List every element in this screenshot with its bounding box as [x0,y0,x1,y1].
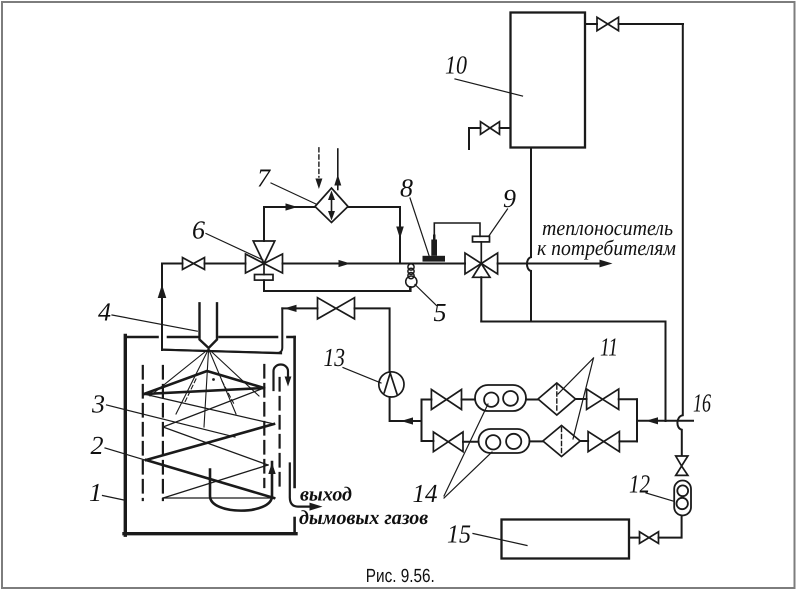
svg-text:выход: выход [300,484,352,506]
arrow gas exit [310,503,323,511]
pump 13 [379,372,404,397]
vessel right wall upper [293,337,296,487]
leader 5 [415,285,437,306]
gas exit elbow [290,464,310,507]
arrow down to main line [396,227,404,239]
tank 15 [502,520,630,559]
branch top pipe [422,398,638,401]
valve on vessel-pump pipe [318,298,355,319]
arrow riser up [158,285,167,299]
arrow out of 7 up [334,175,341,186]
svg-text:5: 5 [434,298,447,327]
leader 6 [206,234,263,261]
arrow siphon up [268,463,275,475]
valve bottom branch left [433,432,463,452]
vessel 1 left wall [124,336,127,536]
leader 8 [410,198,429,256]
svg-text:13: 13 [324,343,346,372]
valve bottom branch right [588,432,619,452]
filter 11 top diamond [538,383,576,415]
dashed axis top diamond [556,385,558,413]
pressure regulator 5 [406,264,417,291]
svg-text:10: 10 [445,51,467,80]
pipe 12 to tank 15 [629,516,682,538]
packing zigzag thick [144,371,274,498]
svg-text:12: 12 [629,470,650,499]
pipe vessel to pump with valve [282,308,389,372]
pipe tank makeup inlet [469,128,511,149]
svg-text:14: 14 [413,479,438,508]
leader 15 [473,534,527,546]
arrow pump outlet [401,417,413,424]
branch bottom pipe [422,440,638,443]
valve top branch right [587,389,619,410]
pipe into vessel channel [163,308,282,353]
branch right junction [636,399,638,441]
valve top branch left [431,390,461,410]
svg-text:6: 6 [192,216,205,245]
arrow branch inlet [646,417,658,424]
leader 12 [646,493,673,501]
spray rays [150,349,259,427]
tank 10 [511,13,586,148]
dashed axis bottom diamond [561,428,563,456]
pipe out of 7 [337,149,339,190]
arrow on main supply mid [339,260,351,267]
svg-text:11: 11 [600,333,618,362]
pipe pump outlet [390,397,422,421]
svg-text:8: 8 [400,174,413,203]
svg-text:2: 2 [91,431,104,460]
packing zigzag thin [144,388,275,498]
pipe 7 to main line [348,207,400,264]
pipe valve6 to loop of 7 [264,207,315,241]
dashed guides right pair [264,365,279,490]
leader 10 [455,79,523,96]
svg-text:4: 4 [98,298,111,327]
pipe branch inlet from right [637,420,693,422]
leader 9 [489,209,508,237]
svg-text:1: 1 [89,478,102,507]
svg-text:16: 16 [693,389,711,418]
pipe tank top to right column [585,23,683,25]
pipe valve9 bottom drop [480,277,482,321]
temperature sensor 8 [423,235,446,262]
flow meter 12 [674,481,691,516]
leader 14 b [444,452,492,498]
leader 11 a [573,358,594,439]
leader 4 [112,315,197,331]
svg-text:Рис. 9.56.: Рис. 9.56. [366,566,435,587]
svg-text:3: 3 [91,390,105,419]
control line 8 to valve 9 [434,223,480,239]
leader 3 [107,405,236,437]
right column pipe with jump over inlet line (node 16) [677,24,682,456]
leader 2 [105,448,150,462]
vessel top wall [125,336,294,339]
pump unit 14 top [475,385,526,411]
arrow loop to 7 [286,203,298,210]
heat exchanger 7 diamond [315,188,348,223]
siphon U-tube [210,462,272,511]
valve on makeup inlet [481,122,500,135]
collector plate slanted [163,350,281,354]
riser pipe from vessel [161,264,163,351]
svg-text:15: 15 [447,520,471,549]
pipe control line y321 [481,321,665,323]
valve right of 15 [640,532,659,544]
branch left junction [421,400,423,442]
gas channel arch [274,365,289,391]
three-way valve 6 [246,241,283,280]
leader 1 [103,496,127,501]
main supply pipe [162,263,601,265]
arrow double inside 7 [328,191,335,221]
filter 11 bottom diamond [543,426,580,457]
valve on main supply left [183,258,205,270]
arrow toward vessel [284,305,296,312]
dashed guides left pair [143,366,163,500]
vessel right wall lower [293,518,296,534]
bypass pipe [264,280,411,291]
pipe drop to branch inlet [665,322,667,422]
vessel bottom wall [124,532,296,535]
svg-text:9: 9 [503,184,516,213]
three-way regulating valve 9 [465,236,498,277]
valve above 12 [676,456,688,475]
leader 13 [343,368,381,384]
leader 11 b [558,358,594,394]
leader 7 [271,183,317,205]
svg-text:дымовых газов: дымовых газов [299,507,428,529]
pipe tank bottom drop with jump over main line [527,148,531,322]
spray dot [212,378,215,381]
arrow channel down [285,377,292,387]
svg-text:7: 7 [257,164,271,193]
leader 14 a [444,404,488,496]
spray nozzle 4 [200,303,218,348]
valve on tank top pipe [597,17,619,30]
svg-text:к потребителям: к потребителям [537,236,676,260]
leader lines [103,79,674,546]
arrow into 7 down [315,179,322,190]
arrow main supply end [600,260,613,268]
pipe into 7 dashed [318,148,320,177]
pump unit 14 bottom [479,429,530,453]
